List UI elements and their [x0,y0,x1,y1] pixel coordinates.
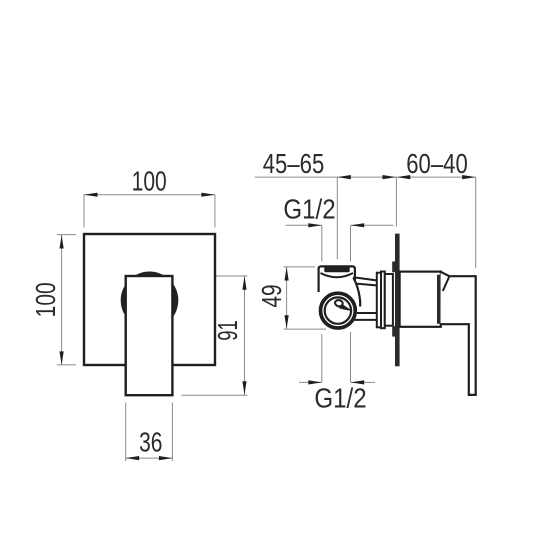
svg-text:91: 91 [213,320,244,341]
svg-text:49: 49 [257,284,288,307]
svg-text:100: 100 [31,282,62,317]
svg-text:G1/2: G1/2 [283,193,335,225]
svg-text:45–65: 45–65 [263,149,324,180]
svg-text:G1/2: G1/2 [314,382,366,414]
svg-text:60–40: 60–40 [406,149,467,180]
svg-text:36: 36 [139,428,162,459]
svg-text:100: 100 [132,167,167,198]
